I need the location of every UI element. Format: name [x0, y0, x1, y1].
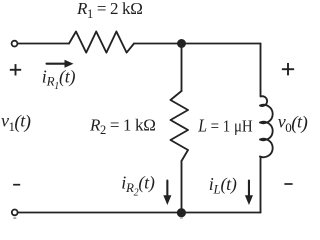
svg-text:L = 1 μH: L = 1 μH — [197, 116, 252, 136]
svg-text:iL(t): iL(t) — [209, 174, 237, 197]
svg-text:R1 = 2 kΩ: R1 = 2 kΩ — [76, 0, 142, 21]
svg-text:R2 = 1 kΩ: R2 = 1 kΩ — [89, 115, 155, 137]
